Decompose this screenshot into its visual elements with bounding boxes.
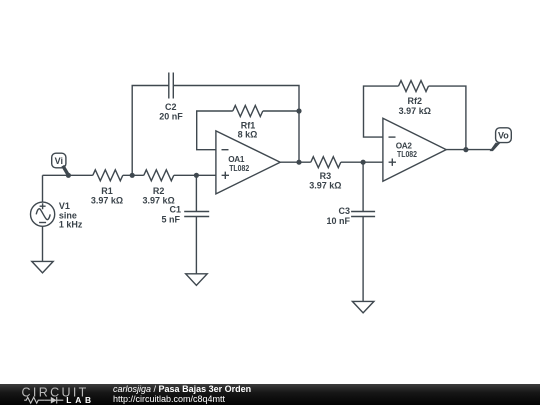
wire (263, 110, 299, 112)
wire (195, 217, 197, 274)
wire (42, 227, 44, 262)
svg-text:C2: C2 (165, 102, 177, 112)
node Vo flag (490, 128, 512, 151)
junction (OA1 out) (296, 160, 301, 165)
wire (173, 86, 299, 163)
wire (362, 217, 364, 302)
svg-text:20 nF: 20 nF (159, 112, 183, 122)
svg-text:1 kHz: 1 kHz (59, 220, 83, 230)
wire (341, 161, 383, 163)
svg-text:R1: R1 (101, 186, 113, 196)
resistor R2 (144, 170, 174, 181)
ground (C3) (352, 301, 374, 313)
svg-text:TL082: TL082 (397, 150, 417, 159)
op-amp OA1 (216, 131, 280, 194)
svg-text:3.97 kΩ: 3.97 kΩ (309, 181, 341, 191)
junction (Rf1 / C2 / out) (296, 108, 301, 113)
wire (132, 86, 169, 176)
svg-text:Vo: Vo (498, 131, 509, 141)
resistor R1 (93, 170, 123, 181)
wire (362, 162, 364, 211)
junction (Vi) (66, 173, 71, 178)
svg-text:Vi: Vi (55, 156, 63, 166)
wire (446, 149, 492, 151)
junction (R1-R2 / C2) (130, 173, 135, 178)
svg-text:R3: R3 (320, 171, 332, 181)
wire (364, 86, 399, 137)
capacitor C2 (169, 73, 174, 99)
resistor Rf2 (399, 81, 429, 92)
footer bar (0, 384, 540, 405)
svg-text:5 nF: 5 nF (161, 214, 180, 224)
node Vi flag (52, 153, 69, 175)
wire (280, 161, 311, 163)
junction (R2 / C1 / OA1+) (194, 173, 199, 178)
ground (V1) (32, 261, 53, 273)
svg-text:TL082: TL082 (229, 164, 249, 173)
wire (174, 174, 216, 176)
wire (195, 175, 197, 211)
capacitor C3 (351, 212, 375, 217)
svg-text:C3: C3 (338, 206, 350, 216)
footer title text (113, 384, 251, 394)
voltage source V1 (30, 202, 54, 226)
wire (43, 174, 93, 176)
svg-text:3.97 kΩ: 3.97 kΩ (399, 106, 431, 116)
svg-text:R2: R2 (153, 186, 165, 196)
footer url text (113, 394, 225, 404)
wire (123, 174, 144, 176)
junction (OA2 out / Rf2) (463, 147, 468, 152)
svg-text:Rf2: Rf2 (408, 96, 423, 106)
svg-text:10 nF: 10 nF (326, 216, 350, 226)
svg-text:C1: C1 (169, 205, 181, 215)
CircuitLab logo (0, 384, 110, 405)
wire (429, 86, 466, 150)
wire (42, 175, 44, 202)
svg-text:8 kΩ: 8 kΩ (238, 129, 258, 139)
capacitor C1 (184, 212, 209, 217)
resistor Rf1 (233, 106, 263, 117)
svg-text:LAB: LAB (66, 395, 95, 405)
ground (C1) (186, 274, 208, 286)
junction (R3 / C3 / OA2+) (361, 160, 366, 165)
op-amp OA2 (383, 118, 446, 181)
resistor R3 (311, 157, 341, 168)
svg-text:3.97 kΩ: 3.97 kΩ (91, 196, 123, 206)
wire (197, 111, 233, 150)
